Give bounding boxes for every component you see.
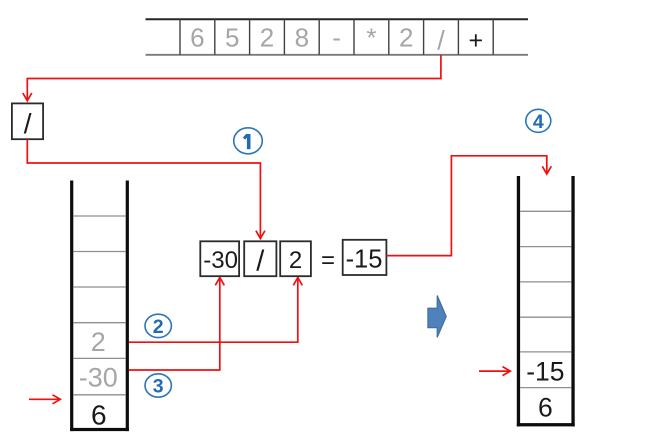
circled number 1: [234, 128, 263, 154]
left stack pointer arrow: [29, 395, 60, 404]
operator box middle slash: [244, 241, 276, 277]
svg-text:6: 6: [538, 393, 553, 423]
left stack walls: [70, 181, 129, 432]
svg-text:4: 4: [533, 111, 544, 133]
svg-text:-15: -15: [346, 245, 383, 273]
svg-text:2: 2: [260, 22, 274, 52]
svg-text:3: 3: [153, 376, 164, 398]
svg-text:*: *: [366, 23, 376, 53]
top expression strip border lines: [146, 19, 529, 55]
svg-text:=: =: [321, 247, 335, 274]
svg-text:6: 6: [190, 22, 204, 52]
svg-text:8: 8: [295, 22, 309, 52]
svg-text:-30: -30: [79, 363, 118, 393]
svg-text:-15: -15: [526, 356, 564, 386]
svg-text:5: 5: [225, 22, 239, 52]
red wire from result box to right stack: [386, 156, 551, 256]
red wire from stack cell 2 to operand box 2: [129, 278, 302, 343]
svg-text:2: 2: [289, 247, 302, 274]
operand box 2: [280, 241, 311, 276]
svg-text:2: 2: [153, 316, 164, 338]
svg-text:/: /: [437, 25, 445, 55]
circled number 2: [145, 314, 171, 338]
svg-text:/: /: [256, 245, 265, 277]
right stack shelf lines: [520, 211, 571, 387]
svg-text:2: 2: [91, 327, 106, 357]
left stack shelf lines: [73, 216, 125, 395]
right stack pointer arrow: [479, 367, 510, 376]
right stack walls: [517, 176, 575, 426]
result box -15: [343, 240, 387, 275]
svg-text:6: 6: [91, 399, 107, 430]
circled number 3: [145, 374, 171, 398]
operand box -30: [200, 241, 239, 276]
svg-text:+: +: [468, 27, 483, 55]
svg-text:2: 2: [399, 22, 413, 52]
operator box slash: [12, 103, 43, 139]
blue block arrow: [428, 296, 446, 338]
svg-text:/: /: [24, 108, 32, 139]
red wire from operator box to middle slash box: [27, 140, 265, 239]
svg-text:-30: -30: [203, 247, 238, 274]
red wire from stack cell -30 to operand box -30: [129, 278, 224, 371]
circled number 4: [526, 109, 551, 133]
red wire from slash token to operator box: [23, 55, 441, 101]
svg-text:-: -: [332, 22, 341, 52]
